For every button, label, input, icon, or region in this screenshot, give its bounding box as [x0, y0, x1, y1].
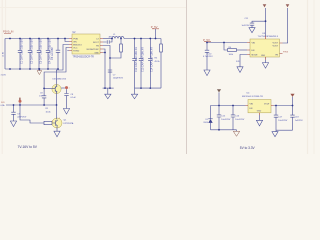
- svg-text:e: e: [69, 88, 70, 90]
- svg-text:TLV75533PDBVR3.3: TLV75533PDBVR3.3: [258, 36, 279, 38]
- capacitor C15: [217, 106, 231, 130]
- wire VOUT up: [283, 8, 288, 43]
- svg-text:1uF/25V: 1uF/25V: [242, 25, 250, 27]
- capacitor C4: [46, 38, 52, 70]
- test point TP1: [19, 98, 22, 106]
- capacitor C5: [51, 38, 60, 70]
- power flag P3V3 out: [286, 4, 290, 7]
- ground input: [37, 68, 42, 75]
- svg-text:C14 CAP 22uF/16V XR: C14 CAP 22uF/16V XR: [151, 47, 154, 72]
- svg-text:PVIN: PVIN: [73, 38, 78, 40]
- svg-text:C13 CAP 22uF/16V XR: C13 CAP 22uF/16V XR: [141, 47, 144, 72]
- ground U4: [256, 115, 262, 126]
- capacitor C10: [203, 42, 213, 70]
- node input pins: [9, 38, 11, 40]
- svg-text:3: 3: [59, 118, 60, 120]
- svg-text:C1 CAP 10uF/25V X5R: C1 CAP 10uF/25V X5R: [20, 39, 23, 64]
- wire gnd rail right: [276, 129, 293, 131]
- svg-text:GND: GND: [94, 52, 99, 54]
- svg-text:5V to 3.3V: 5V to 3.3V: [240, 146, 256, 150]
- capacitor C3: [37, 38, 43, 70]
- svg-text:RT/SD: RT/SD: [73, 50, 80, 52]
- wire VOUT rail: [274, 105, 293, 107]
- regulator U2 buck converter: [69, 32, 103, 58]
- capacitor C7 comp: [108, 70, 124, 80]
- net label P_5V stub: [151, 25, 159, 39]
- svg-text:MIC5504-3.3YM5-TR: MIC5504-3.3YM5-TR: [242, 96, 263, 98]
- capacitor C7 bypass: [64, 89, 76, 108]
- svg-text:7V-16V to 5V: 7V-16V to 5V: [18, 145, 38, 149]
- svg-text:0.1uF: 0.1uF: [71, 97, 77, 99]
- diode D1: [203, 106, 212, 130]
- svg-text:C2 CAP 10uF/25V X5R: C2 CAP 10uF/25V X5R: [30, 39, 33, 64]
- wire Q6 base: [44, 87, 52, 89]
- wire GND pins: [103, 49, 105, 88]
- ground C7: [63, 109, 69, 115]
- test point TP2: [61, 86, 70, 90]
- wire main rail: [6, 104, 57, 106]
- svg-text:P5V0_IN: P5V0_IN: [3, 30, 14, 34]
- power flag P3V3: [290, 94, 294, 107]
- capacitor C8: [39, 88, 46, 106]
- wire gnd rail left: [211, 129, 237, 131]
- svg-text:C12 CAP 22uF/16V XR: C12 CAP 22uF/16V XR: [135, 47, 138, 72]
- inductor L1: [103, 34, 124, 39]
- ground analog: [105, 88, 111, 99]
- svg-text:P3V3: P3V3: [283, 52, 289, 54]
- ground C11: [249, 28, 255, 33]
- capacitor C6 bootstrap: [103, 38, 113, 44]
- svg-text:VIN: VIN: [252, 42, 256, 44]
- capacitor C11: [242, 18, 267, 28]
- svg-text:VIN: VIN: [250, 103, 254, 105]
- svg-text:EN/UVLO: EN/UVLO: [73, 44, 82, 46]
- svg-text:GND: GND: [261, 55, 266, 57]
- wire RT to Q6 base: [44, 48, 69, 89]
- ground U3: [262, 60, 268, 68]
- wire input left drop: [4, 39, 6, 70]
- svg-text:J1 IN: J1 IN: [3, 51, 5, 57]
- svg-text:P_5V: P_5V: [151, 25, 158, 29]
- svg-text:GND: GND: [257, 111, 262, 113]
- svg-text:4.7uF/25V: 4.7uF/25V: [203, 56, 213, 58]
- svg-text:VOUT: VOUT: [264, 103, 270, 105]
- regulator U4 LDO: [242, 93, 274, 115]
- capacitor C17: [274, 105, 288, 131]
- capacitor C9: [11, 104, 27, 121]
- wire analog ground rail: [103, 87, 114, 89]
- wire VIN rail: [211, 105, 246, 107]
- wire VIN: [207, 42, 247, 44]
- wire input rail: [5, 38, 69, 40]
- transistor Q1: [52, 105, 74, 131]
- svg-text:C5 1uF/25V: C5 1uF/25V: [51, 47, 54, 60]
- wire Q6 to rail: [56, 94, 58, 105]
- wire VIN bend: [65, 39, 69, 42]
- svg-text:BOOT: BOOT: [93, 42, 99, 44]
- wire EN to D2: [56, 45, 69, 85]
- resistor R5: [155, 39, 163, 89]
- capacitor C16: [231, 105, 245, 130]
- svg-text:VCC: VCC: [73, 47, 78, 49]
- svg-text:10uF/25V: 10uF/25V: [235, 119, 245, 121]
- svg-text:SS14: SS14: [203, 122, 208, 124]
- svg-text:FZT853TA: FZT853TA: [64, 122, 74, 125]
- power flag +5V: [217, 89, 221, 106]
- resistor R1 base: [20, 105, 52, 125]
- wire input ground rail: [5, 68, 58, 70]
- svg-text:100pF/16V: 100pF/16V: [113, 78, 124, 80]
- svg-text:VIN: VIN: [73, 41, 77, 43]
- svg-text:22uF/25V: 22uF/25V: [17, 117, 27, 119]
- wire MODE to gnd: [240, 55, 247, 67]
- wire FB: [103, 46, 110, 89]
- svg-text:1uF/25V: 1uF/25V: [295, 120, 303, 122]
- ground left rail: [233, 130, 239, 137]
- sheet divider: [186, 0, 188, 154]
- svg-text:VOUT: VOUT: [272, 45, 278, 47]
- power flag P5V top: [263, 4, 267, 36]
- svg-text:1: 1: [52, 121, 53, 123]
- svg-text:P_5V: P_5V: [203, 38, 210, 42]
- ground right rail: [272, 130, 278, 137]
- transistor Q6: [52, 78, 66, 93]
- capacitor C1: [18, 38, 24, 70]
- svg-text:VOUT: VOUT: [272, 42, 278, 44]
- svg-text:10uF/25V: 10uF/25V: [278, 120, 288, 122]
- regulator U3 LDO: [247, 33, 283, 60]
- svg-text:MODE/SYNC: MODE/SYNC: [87, 49, 100, 51]
- resistor R2: [110, 38, 122, 58]
- ground C9: [10, 121, 16, 127]
- svg-text:10uF/25V: 10uF/25V: [221, 119, 231, 121]
- ground Q1: [54, 131, 60, 137]
- svg-text:7-16V: 7-16V: [1, 74, 7, 76]
- wire output rail: [124, 38, 161, 40]
- capacitor C2: [28, 38, 34, 70]
- svg-text:C3 CAP 10uF/25V X5R: C3 CAP 10uF/25V X5R: [39, 39, 42, 64]
- capacitor C14 out: [148, 38, 154, 89]
- svg-text:MODE: MODE: [252, 54, 259, 56]
- ground MODE: [237, 67, 243, 73]
- ground C10: [204, 70, 210, 76]
- resistor R4: [223, 42, 247, 56]
- svg-text:TPS54331DDCR-TR: TPS54331DDCR-TR: [73, 56, 95, 58]
- capacitor C12 out: [132, 38, 138, 89]
- ground output: [131, 88, 137, 99]
- svg-text:D1: D1: [206, 119, 208, 121]
- capacitor C13 out: [139, 38, 145, 89]
- wire output ground rail: [135, 87, 162, 89]
- capacitor C18: [290, 106, 303, 131]
- svg-text:D6 BZX84C5V6: D6 BZX84C5V6: [53, 78, 66, 80]
